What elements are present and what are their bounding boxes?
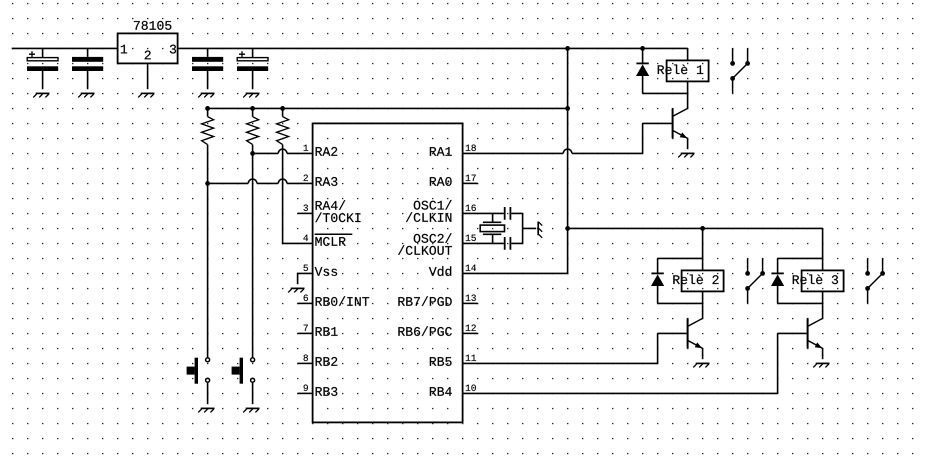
ground	[243, 93, 259, 97]
wire 78105 pin2 to ground	[147, 63, 149, 89]
pin 12 stub	[463, 332, 478, 334]
resistor R1	[205, 106, 210, 111]
node RA2 junction	[250, 151, 255, 156]
wire D2 bottom to coil	[658, 302, 703, 304]
ground	[138, 93, 154, 97]
wire coil K3 vertical	[822, 228, 824, 318]
ground	[33, 93, 49, 97]
wire D3 bottom to coil	[778, 302, 823, 304]
pushbutton S1	[206, 358, 210, 362]
wire crystal caps to ground	[523, 213, 537, 243]
wire coil K2 vertical	[702, 228, 704, 318]
wire RA1 pin18 to Q2 base	[463, 123, 672, 153]
pin 17 stub	[463, 182, 478, 184]
node rail-Vdd junction	[565, 106, 570, 111]
wire OSC2 pin15	[463, 242, 523, 244]
diode D3	[777, 258, 779, 273]
ground	[198, 408, 214, 412]
wire relay feed row	[568, 227, 823, 229]
capacitor C4 electrolytic	[252, 48, 254, 89]
transistor Q3	[687, 318, 689, 348]
wire coil K1 vertical	[687, 48, 689, 108]
wire RB4 pin10 to Q4 base	[463, 333, 807, 393]
wire S2 to ground	[252, 382, 254, 404]
pushbutton S2	[251, 358, 255, 362]
wire Q2 emitter to ground	[687, 138, 689, 149]
diode D1	[642, 48, 644, 63]
pin 3 stub RA4	[298, 212, 313, 214]
wire D1 bottom to coil	[643, 92, 688, 94]
switch contact SW1	[733, 48, 748, 93]
switch contact SW3	[868, 258, 883, 303]
transistor Q2	[672, 108, 674, 138]
MCLR overline	[315, 233, 353, 235]
relay K2 coil box	[682, 270, 724, 291]
node relay2 branch	[700, 226, 705, 231]
transistor Q4	[807, 318, 809, 348]
capacitor C1 electrolytic	[42, 48, 44, 89]
switch contact SW2	[748, 258, 763, 303]
wire OSC1 pin16	[463, 212, 523, 214]
IC pin labels left	[316, 147, 338, 156]
pin 13 stub	[463, 302, 478, 304]
wire RB5 pin11 to Q3 base	[463, 333, 687, 363]
pin 7 stub	[298, 332, 313, 334]
wire resistor feed rail	[208, 107, 568, 109]
ground	[288, 288, 304, 292]
relay K3 coil box	[802, 270, 844, 291]
capacitor C2	[87, 48, 89, 89]
ground	[198, 93, 214, 97]
wire +V rail top	[12, 47, 688, 49]
wire S1 to ground	[207, 382, 209, 404]
node on rail	[565, 46, 570, 51]
ground rotated	[538, 222, 542, 238]
wire D2 top branch	[658, 257, 703, 259]
node RA3 junction	[205, 181, 210, 186]
regulator U2 78105 box	[118, 33, 178, 63]
wire D3 top branch	[778, 257, 823, 259]
relay K1 label	[658, 65, 704, 75]
capacitor C6 plates	[505, 237, 511, 250]
node	[565, 226, 570, 231]
wire R2 down to button S2	[252, 145, 254, 358]
ground	[678, 153, 694, 157]
wire RA3 pin2	[208, 182, 313, 184]
ground	[243, 408, 259, 412]
ground	[78, 93, 94, 97]
pin numbers left	[304, 145, 309, 151]
diode D2	[657, 258, 659, 273]
relay K2 label	[673, 275, 718, 285]
pin 6 stub	[298, 302, 313, 304]
wire RA2 pin1	[253, 152, 313, 154]
pin numbers right	[466, 145, 476, 151]
resistor R2	[250, 106, 255, 111]
pin 5 Vss stub to ground	[298, 273, 313, 284]
wire R1 down to button S1	[207, 145, 209, 358]
wire Q3 emitter to ground	[702, 348, 704, 359]
crystal Q1	[492, 213, 494, 243]
relay K1 coil box	[667, 60, 709, 81]
IC pin labels right	[430, 147, 452, 156]
IC U1 PIC16F84 box	[313, 123, 463, 422]
capacitor C5 plates	[505, 207, 511, 220]
resistor R3	[280, 106, 285, 111]
node diode D1 tap	[640, 46, 645, 51]
pin 8 stub	[298, 362, 313, 364]
wire +V down to Vdd	[463, 48, 568, 273]
wire R3 to MCLR	[283, 145, 313, 244]
ground	[693, 363, 709, 367]
capacitor C3	[207, 48, 209, 89]
ground	[813, 363, 829, 367]
relay K3 label	[793, 275, 838, 285]
pin 9 stub	[298, 392, 313, 394]
wire Q4 emitter to ground	[822, 348, 824, 359]
